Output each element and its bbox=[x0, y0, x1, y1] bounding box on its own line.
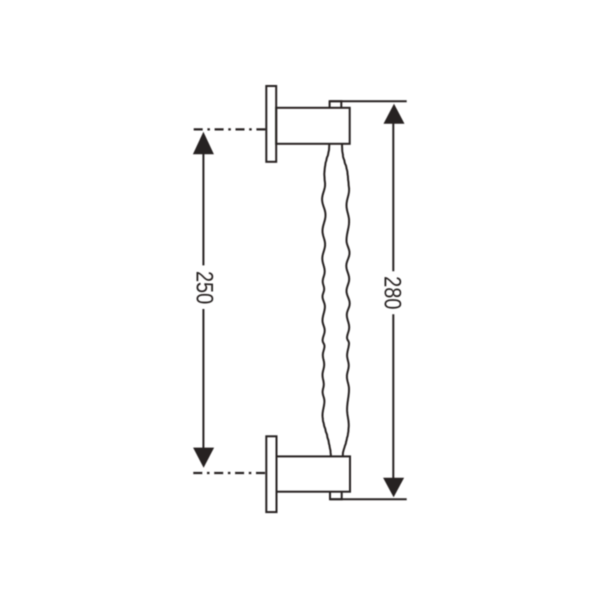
svg-text:250: 250 bbox=[190, 271, 217, 304]
svg-text:280: 280 bbox=[378, 276, 405, 309]
